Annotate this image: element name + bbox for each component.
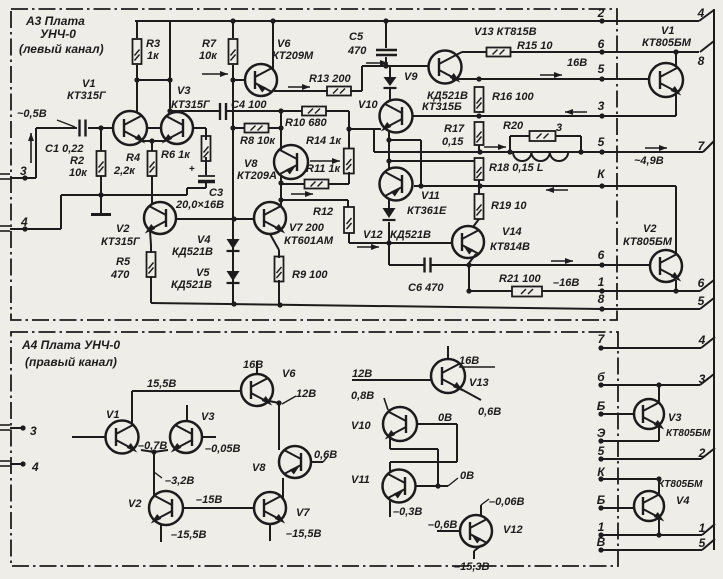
svg-text:2: 2 bbox=[698, 446, 706, 460]
svg-text:R16 100: R16 100 bbox=[492, 91, 534, 103]
svg-text:0В: 0В bbox=[438, 412, 452, 424]
svg-text:С5: С5 bbox=[349, 31, 364, 43]
svg-text:V12: V12 bbox=[363, 229, 383, 241]
svg-text:0,6В: 0,6В bbox=[478, 406, 501, 418]
svg-text:3: 3 bbox=[598, 99, 605, 113]
svg-text:С4 100: С4 100 bbox=[231, 99, 267, 111]
svg-text:V7: V7 bbox=[296, 507, 310, 519]
svg-text:V2: V2 bbox=[116, 223, 129, 235]
svg-text:(левый канал): (левый канал) bbox=[19, 42, 104, 56]
svg-text:Б: Б bbox=[597, 399, 606, 413]
svg-text:КТ315Г: КТ315Г bbox=[67, 90, 107, 102]
svg-text:V6: V6 bbox=[282, 368, 296, 380]
svg-text:–15,3В: –15,3В bbox=[454, 561, 490, 573]
svg-text:5: 5 bbox=[598, 135, 605, 149]
svg-text:4: 4 bbox=[20, 215, 28, 229]
svg-text:КТ209А: КТ209А bbox=[237, 170, 277, 182]
svg-text:1: 1 bbox=[598, 275, 605, 289]
svg-text:V2: V2 bbox=[128, 498, 141, 510]
svg-text:V10: V10 bbox=[351, 420, 371, 432]
svg-text:–15,5В: –15,5В bbox=[171, 529, 207, 541]
svg-text:5: 5 bbox=[598, 62, 605, 76]
svg-text:R15 10: R15 10 bbox=[517, 40, 553, 52]
svg-text:R14 1к: R14 1к bbox=[306, 135, 342, 147]
svg-text:V2: V2 bbox=[643, 223, 656, 235]
svg-text:V7 200: V7 200 bbox=[289, 222, 325, 234]
svg-text:V3: V3 bbox=[201, 411, 214, 423]
svg-text:–0,6В: –0,6В bbox=[428, 519, 457, 531]
svg-text:12В: 12В bbox=[352, 368, 372, 380]
svg-text:R9 100: R9 100 bbox=[292, 269, 328, 281]
svg-text:15,5В: 15,5В bbox=[147, 378, 176, 390]
svg-text:R12: R12 bbox=[313, 206, 333, 218]
svg-text:12В: 12В bbox=[296, 388, 316, 400]
svg-text:V11: V11 bbox=[421, 190, 440, 202]
svg-text:КД521В: КД521В bbox=[172, 246, 213, 258]
svg-text:~4,9В: ~4,9В bbox=[634, 155, 664, 167]
svg-text:УНЧ-0: УНЧ-0 bbox=[40, 27, 76, 41]
svg-text:–0,7В: –0,7В bbox=[138, 440, 167, 452]
svg-text:0,15: 0,15 bbox=[442, 136, 464, 148]
svg-text:V8: V8 bbox=[244, 158, 258, 170]
svg-text:С1 0,22: С1 0,22 bbox=[45, 143, 84, 155]
svg-text:С6 470: С6 470 bbox=[408, 282, 444, 294]
svg-text:1: 1 bbox=[699, 521, 706, 535]
svg-text:КТ361Е: КТ361Е bbox=[407, 205, 447, 217]
svg-text:R6 1к: R6 1к bbox=[161, 149, 191, 161]
svg-text:10к: 10к bbox=[69, 167, 88, 179]
svg-text:3: 3 bbox=[20, 164, 27, 178]
svg-text:2: 2 bbox=[597, 6, 605, 20]
svg-text:КТ805БМ: КТ805БМ bbox=[658, 479, 703, 490]
svg-text:470: 470 bbox=[347, 45, 367, 57]
svg-text:V11: V11 bbox=[351, 474, 370, 486]
svg-text:R7: R7 bbox=[202, 38, 217, 50]
svg-text:V1: V1 bbox=[106, 409, 119, 421]
svg-text:–3,2В: –3,2В bbox=[165, 475, 194, 487]
svg-text:V4: V4 bbox=[197, 234, 210, 246]
svg-text:1к: 1к bbox=[147, 50, 160, 62]
svg-text:R4: R4 bbox=[126, 152, 140, 164]
svg-text:А3 Плата: А3 Плата bbox=[25, 14, 85, 28]
svg-text:V1: V1 bbox=[661, 25, 674, 37]
svg-text:С3: С3 bbox=[209, 187, 223, 199]
svg-text:5: 5 bbox=[598, 444, 605, 458]
svg-text:R13 200: R13 200 bbox=[309, 73, 351, 85]
svg-text:V8: V8 bbox=[252, 462, 266, 474]
svg-text:V13 КТ815В: V13 КТ815В bbox=[474, 26, 537, 38]
svg-text:V13: V13 bbox=[469, 377, 489, 389]
svg-text:8: 8 bbox=[598, 292, 605, 306]
svg-text:В: В bbox=[597, 535, 606, 549]
svg-text:16В: 16В bbox=[567, 57, 587, 69]
svg-text:4: 4 bbox=[698, 333, 706, 347]
svg-text:R19 10: R19 10 bbox=[491, 200, 527, 212]
svg-text:R5: R5 bbox=[116, 256, 131, 268]
svg-text:V10: V10 bbox=[358, 99, 378, 111]
svg-text:Б: Б bbox=[597, 493, 606, 507]
svg-text:R20: R20 bbox=[503, 120, 524, 132]
svg-text:КТ315Г: КТ315Г bbox=[101, 236, 141, 248]
svg-text:R18 0,15 L: R18 0,15 L bbox=[489, 162, 544, 174]
svg-text:Э: Э bbox=[597, 426, 606, 440]
svg-text:20,0×16В: 20,0×16В bbox=[175, 199, 224, 211]
svg-text:–0,06В: –0,06В bbox=[489, 496, 525, 508]
svg-text:R8 10к: R8 10к bbox=[240, 135, 276, 147]
svg-text:КТ814В: КТ814В bbox=[490, 241, 530, 253]
svg-text:V14: V14 bbox=[502, 226, 522, 238]
svg-text:V12: V12 bbox=[503, 524, 523, 536]
svg-text:КТ805БМ: КТ805БМ bbox=[666, 428, 711, 439]
svg-text:470: 470 bbox=[110, 269, 130, 281]
svg-text:6: 6 bbox=[598, 248, 605, 262]
svg-text:0В: 0В bbox=[460, 470, 474, 482]
svg-text:1: 1 bbox=[598, 520, 605, 534]
svg-text:КТ805БМ: КТ805БМ bbox=[623, 236, 673, 248]
svg-text:V3: V3 bbox=[668, 412, 681, 424]
svg-text:V5: V5 bbox=[196, 267, 210, 279]
svg-text:~0,5В: ~0,5В bbox=[17, 108, 47, 120]
svg-text:R2: R2 bbox=[70, 155, 84, 167]
svg-text:+: + bbox=[189, 164, 195, 175]
svg-text:3: 3 bbox=[30, 424, 37, 438]
svg-text:10к: 10к bbox=[199, 50, 218, 62]
svg-text:V1: V1 bbox=[82, 78, 95, 90]
svg-text:КТ315Г: КТ315Г bbox=[171, 99, 211, 111]
svg-text:4: 4 bbox=[31, 460, 39, 474]
svg-text:6: 6 bbox=[598, 37, 605, 51]
svg-text:КД521В: КД521В bbox=[171, 279, 212, 291]
svg-text:V6: V6 bbox=[277, 38, 291, 50]
svg-text:R17: R17 bbox=[444, 123, 465, 135]
svg-text:16В: 16В bbox=[459, 355, 479, 367]
svg-text:0,8В: 0,8В bbox=[351, 390, 374, 402]
svg-text:А4 Плата УНЧ-0: А4 Плата УНЧ-0 bbox=[21, 338, 120, 352]
svg-text:R21 100: R21 100 bbox=[499, 273, 541, 285]
svg-text:0,6В: 0,6В bbox=[314, 449, 337, 461]
svg-text:б: б bbox=[597, 370, 605, 384]
svg-text:V4: V4 bbox=[676, 495, 689, 507]
svg-text:5: 5 bbox=[698, 294, 705, 308]
svg-text:R11 1к: R11 1к bbox=[306, 163, 342, 175]
svg-text:КТ209М: КТ209М bbox=[272, 50, 314, 62]
svg-text:2,2к: 2,2к bbox=[113, 165, 136, 177]
svg-text:–16В: –16В bbox=[553, 277, 579, 289]
svg-text:V9: V9 bbox=[404, 71, 418, 83]
svg-text:8: 8 bbox=[698, 54, 705, 68]
svg-text:КТ601АМ: КТ601АМ bbox=[284, 235, 334, 247]
svg-text:V3: V3 bbox=[177, 85, 190, 97]
svg-text:–0,3В: –0,3В bbox=[393, 506, 422, 518]
svg-text:4: 4 bbox=[697, 6, 705, 20]
svg-text:16В: 16В bbox=[243, 359, 263, 371]
svg-text:–15,5В: –15,5В bbox=[286, 528, 322, 540]
svg-text:–0,05В: –0,05В bbox=[205, 443, 241, 455]
svg-text:3: 3 bbox=[699, 372, 706, 386]
svg-text:КД521В: КД521В bbox=[390, 229, 431, 241]
svg-text:R10 680: R10 680 bbox=[285, 117, 327, 129]
svg-text:6: 6 bbox=[698, 276, 705, 290]
svg-text:R3: R3 bbox=[146, 38, 160, 50]
svg-text:–15В: –15В bbox=[196, 494, 222, 506]
svg-text:КТ805БМ: КТ805БМ bbox=[642, 37, 692, 49]
svg-text:3: 3 bbox=[556, 122, 562, 134]
svg-text:КТ315Б: КТ315Б bbox=[422, 101, 462, 113]
svg-text:(правый канал): (правый канал) bbox=[25, 355, 117, 369]
svg-text:5: 5 bbox=[699, 536, 706, 550]
